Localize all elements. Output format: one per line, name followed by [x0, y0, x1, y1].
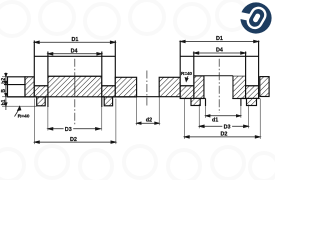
dimension D3 right hub	[199, 125, 248, 127]
svg-text:b2: b2	[1, 78, 7, 84]
svg-text:R=40: R=40	[18, 114, 30, 120]
R=40 right leader arrowhead	[185, 78, 188, 82]
right lower bore right edge	[240, 98, 242, 106]
right D2 extension line left	[183, 99, 185, 139]
right hub hatch under right post	[246, 86, 259, 99]
left hub middle cell bottom edge	[48, 75, 102, 77]
left hub: hatch under left post	[34, 86, 48, 97]
D3 extension line left	[47, 107, 49, 131]
right hub hatch sliver left of bore	[194, 76, 204, 99]
right hub centerline	[218, 59, 220, 113]
left hub: hatch under middle cell	[48, 76, 102, 97]
d1 extension line left	[205, 105, 207, 118]
middle hatched block A	[115, 77, 136, 96]
right hub right post bottom edge	[246, 85, 259, 87]
dimension D1 right hub	[180, 41, 258, 43]
left shaft stub (white)	[8, 77, 26, 97]
b1 tick line	[2, 105, 37, 107]
left hub step block left (hatched)	[37, 97, 46, 106]
band bottom edge: right step to middle block A	[113, 96, 137, 98]
middle hatched block B	[159, 77, 180, 96]
right hub flange top edge	[180, 55, 258, 57]
tick arrow at y=96.8	[5, 93, 7, 96]
svg-text:D3: D3	[224, 125, 231, 131]
right hub flange right edge / D1 extension	[258, 41, 260, 86]
left hub flange right edge / D1 extension	[114, 41, 116, 86]
svg-text:D4: D4	[71, 49, 78, 55]
d1 extension line right	[240, 105, 242, 118]
svg-text:D2: D2	[221, 132, 228, 138]
R=40 left leader arrowhead	[18, 106, 21, 110]
right band bottom edge segment d	[257, 97, 260, 99]
D2 extension line left	[33, 99, 35, 145]
svg-text:d1: d1	[212, 118, 218, 124]
right D3 extension line right	[248, 105, 250, 129]
d2 extension line right	[158, 97, 160, 126]
D3 extension line right	[101, 107, 103, 131]
band bottom edge: left step to bore	[45, 96, 48, 98]
right band bottom edge segment b	[200, 97, 205, 99]
left hub inner divider right / D4 extension	[101, 52, 103, 86]
right hub step block right (hatched)	[247, 98, 257, 105]
middle shaft centerline	[146, 71, 148, 107]
label D3 left (on line)	[64, 126, 74, 131]
left hub center split line through hatch	[74, 76, 76, 97]
faint watermark bottom	[0, 146, 278, 182]
tick arrow at y=76.8	[5, 73, 7, 76]
left hub left post bottom edge	[34, 85, 48, 87]
vertical dimension line for b2 / B / b1	[5, 73, 7, 111]
svg-text:D3: D3	[65, 127, 72, 133]
right D3 extension line left	[198, 105, 200, 129]
svg-text:D1: D1	[72, 37, 79, 43]
right hub step block left (hatched)	[191, 98, 200, 105]
right shaft end block (hatched)	[260, 77, 269, 97]
tick arrow at y=106.2	[5, 103, 7, 106]
right band bottom edge segment c	[241, 97, 247, 99]
tick arrow at y=84.6	[5, 81, 7, 84]
right hub inner divider right / D4 extension	[245, 52, 247, 86]
d2 extension line left	[136, 97, 138, 126]
right hub hatch under left post	[180, 86, 194, 99]
svg-text:R=40: R=40	[181, 71, 193, 76]
b2 tick line	[2, 76, 25, 78]
D2 extension line right	[115, 99, 117, 145]
right D2 extension line right	[259, 99, 261, 139]
left hub bore right edge	[101, 97, 103, 107]
right hub left post bottom edge	[180, 85, 194, 87]
hatched column left of left hub	[25, 77, 34, 97]
svg-text:d2: d2	[146, 118, 152, 124]
dimension D2 right hub	[184, 136, 260, 138]
right hub flange white block	[180, 56, 258, 85]
svg-text:B: B	[1, 89, 7, 93]
right lower bore left edge	[205, 98, 207, 106]
stub divider line	[4, 84, 25, 86]
B tick line	[2, 96, 8, 98]
left hub step block right (hatched)	[104, 97, 112, 106]
left hub flange left edge / D1 extension	[33, 41, 35, 86]
right hub flange left edge / D1 extension	[179, 41, 181, 86]
R=40 right leader line	[187, 76, 188, 79]
left hub inner divider left / D4 extension	[47, 52, 49, 86]
left hub flange white block	[34, 56, 115, 85]
svg-text:D2: D2	[70, 137, 77, 143]
right hub middle cell bottom edge	[194, 75, 233, 77]
left hub bore left edge	[47, 97, 49, 107]
label D3 right (on line)	[222, 124, 232, 129]
right hub inner divider left / D4 extension	[193, 52, 195, 86]
left hub flange top edge	[34, 55, 115, 57]
left hub right post bottom edge	[102, 85, 116, 87]
band bottom edge: bore to right step	[102, 96, 104, 98]
right band bottom edge segment a	[180, 97, 191, 99]
right hub bore right edge	[232, 76, 234, 99]
right hub hatched block right of bore	[233, 76, 246, 99]
left hub: hatch under right post	[102, 86, 116, 97]
shaft d2 silhouette line	[137, 96, 160, 98]
right hub bore white fill	[205, 76, 233, 98]
faint watermark top	[0, 0, 247, 38]
dimension D1 left hub	[34, 41, 115, 43]
right hub bore left edge	[203, 76, 205, 99]
logo disc top right	[237, 2, 271, 33]
left hub centerline	[74, 59, 76, 126]
svg-text:D4: D4	[216, 48, 223, 54]
dimension d1 right hub bore	[206, 115, 241, 117]
svg-text:D1: D1	[216, 36, 223, 42]
dimension D2 left hub	[34, 141, 116, 143]
dimension D4 right hub	[194, 52, 246, 54]
band bottom edge: stub to left step	[8, 96, 37, 98]
dimension D4 left hub	[48, 53, 102, 55]
dimension D3 left hub	[48, 128, 101, 130]
svg-text:b1: b1	[1, 99, 7, 105]
dimension d2 middle shaft	[137, 122, 160, 124]
R=40 left leader line	[15, 108, 20, 116]
